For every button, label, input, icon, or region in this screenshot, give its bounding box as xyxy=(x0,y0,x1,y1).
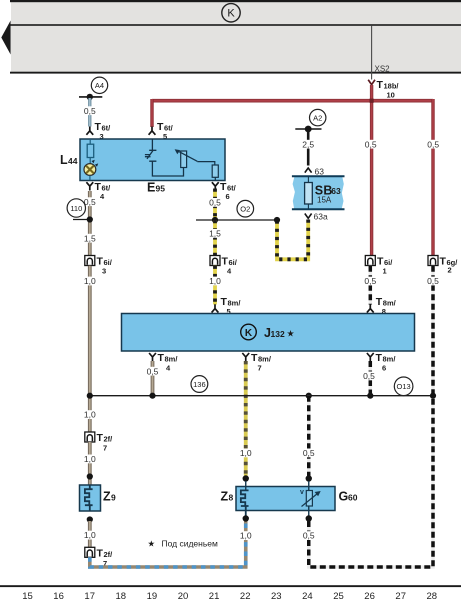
svg-text:24: 24 xyxy=(302,591,313,600)
svg-text:0,5: 0,5 xyxy=(427,276,439,286)
junction dot G60 bottom xyxy=(306,515,312,521)
svg-text:★: ★ xyxy=(287,329,295,339)
label 0,5 on red wire right xyxy=(426,140,441,149)
junction dot xyxy=(87,516,93,522)
wire: tan T6i/3 down through junction to Z9 xyxy=(88,266,92,433)
svg-text:G: G xyxy=(339,490,349,504)
svg-text:v: v xyxy=(300,489,304,496)
svg-text:44: 44 xyxy=(68,156,78,166)
node junction line 136/O13 xyxy=(90,395,433,397)
wire: yellow/black T8m/7 down to Z8 xyxy=(244,361,248,476)
svg-text:1,5: 1,5 xyxy=(209,229,221,239)
pin T8m/4 xyxy=(149,353,156,361)
series resistor in E95 xyxy=(212,165,218,177)
svg-text:15: 15 xyxy=(22,591,33,600)
svg-text:0,5: 0,5 xyxy=(303,531,315,541)
svg-text:16: 16 xyxy=(53,591,64,600)
connector T6g/2 xyxy=(428,256,438,266)
svg-text:25: 25 xyxy=(333,591,344,600)
svg-text:T: T xyxy=(440,256,447,268)
svg-text:20: 20 xyxy=(178,591,189,600)
svg-text:15A: 15A xyxy=(317,196,332,205)
svg-text:E: E xyxy=(147,181,155,195)
lamp L44 resistor xyxy=(89,139,91,144)
heater element Z9 xyxy=(80,485,101,511)
svg-text:1,0: 1,0 xyxy=(209,276,221,286)
svg-text:3: 3 xyxy=(102,267,106,276)
svg-text:K: K xyxy=(227,8,235,20)
wire: blue/grey bottom run Z9 to Z8 xyxy=(90,519,246,567)
pin T6t/3 xyxy=(86,127,93,135)
pin T6t/4 xyxy=(86,182,93,190)
svg-text:A2: A2 xyxy=(313,114,322,123)
svg-text:110: 110 xyxy=(70,204,82,213)
lamp L44 xyxy=(84,164,96,176)
junction dot xyxy=(149,393,155,399)
svg-text:O2: O2 xyxy=(240,205,250,214)
junction dot G60 top xyxy=(306,475,312,481)
fuse SB63 pin 63a xyxy=(305,214,312,219)
svg-text:★: ★ xyxy=(148,539,156,549)
svg-text:0,5: 0,5 xyxy=(147,366,159,376)
connector T2f/7 upper xyxy=(85,432,95,442)
wire: tan E95 pin4 down to T6i/3 xyxy=(88,191,92,255)
label 1,0 below Z8 xyxy=(238,531,253,540)
connector T6i/3 xyxy=(85,256,95,266)
svg-text:28: 28 xyxy=(427,591,438,600)
svg-text:O13: O13 xyxy=(397,382,411,391)
junction dot xyxy=(87,393,93,399)
wire: grey-blue from A4 to T6t/3 xyxy=(88,98,91,127)
junction dot xyxy=(306,393,312,399)
junction dot xyxy=(367,393,373,399)
junction dot Z8 bottom xyxy=(243,515,249,521)
svg-text:T: T xyxy=(97,547,104,559)
junction dot Z8 top xyxy=(243,475,249,481)
svg-text:A4: A4 xyxy=(95,81,104,90)
svg-text:63: 63 xyxy=(331,186,341,196)
bottom scale numbers xyxy=(22,591,437,600)
svg-text:63a: 63a xyxy=(314,212,328,222)
svg-text:1,0: 1,0 xyxy=(84,276,96,286)
junction dot xyxy=(87,216,93,222)
wire: black/white T8m/6 to junction line xyxy=(369,361,373,396)
connector T6i/4 xyxy=(210,256,220,266)
svg-text:K: K xyxy=(245,328,253,339)
svg-text:9: 9 xyxy=(111,493,116,503)
pin T8m/8 xyxy=(367,304,374,312)
junction dot xyxy=(274,217,280,223)
svg-text:0,5: 0,5 xyxy=(365,139,377,149)
svg-text:XS2: XS2 xyxy=(375,64,391,73)
svg-text:10: 10 xyxy=(387,91,395,100)
svg-text:63: 63 xyxy=(315,167,325,177)
svg-text:136: 136 xyxy=(193,380,206,389)
ground point A2 xyxy=(310,109,326,125)
connector T6i/1 xyxy=(365,256,375,266)
heater element Z8 / sensor G60 box xyxy=(236,487,335,511)
svg-text:0,5: 0,5 xyxy=(303,448,315,458)
svg-text:132: 132 xyxy=(271,329,285,339)
svg-text:T: T xyxy=(251,352,258,364)
svg-text:95: 95 xyxy=(156,184,166,194)
wire: black/white T6g/2 down, bottom run, up to G60 xyxy=(309,266,433,567)
svg-text:2f/: 2f/ xyxy=(104,550,114,559)
svg-text:Под сиденьем: Под сиденьем xyxy=(162,539,219,549)
wire: yellow/black from 63a down and to O2 line xyxy=(277,220,308,260)
bottom scale bar xyxy=(0,585,461,587)
fuse SB63 box xyxy=(293,176,344,209)
svg-text:1,0: 1,0 xyxy=(84,454,96,464)
svg-text:Z: Z xyxy=(103,490,111,504)
wire: tan to Z9 xyxy=(88,442,92,485)
svg-text:T: T xyxy=(377,79,384,91)
svg-text:6: 6 xyxy=(226,192,230,201)
wire: tan below Z9 xyxy=(88,521,92,548)
connector chevron T18b/10 xyxy=(368,80,375,85)
svg-text:0,5: 0,5 xyxy=(427,139,439,149)
svg-text:0,5: 0,5 xyxy=(364,276,376,286)
wire: tan left column lower to Z9 xyxy=(83,410,98,419)
terminal K circle in rail xyxy=(222,4,240,22)
node 110 circle xyxy=(73,219,90,221)
wire: yellow/black E95 pin6 down to O2 line xyxy=(213,189,217,221)
label 0,5 on red wire left xyxy=(364,140,379,149)
svg-text:8m/: 8m/ xyxy=(258,355,272,364)
svg-text:17: 17 xyxy=(84,591,95,600)
junction dot xyxy=(212,217,218,223)
wire: red drop from XS2 to rail and to T6i/1 xyxy=(370,85,373,255)
svg-text:8m/: 8m/ xyxy=(165,355,179,364)
svg-text:6: 6 xyxy=(382,364,386,373)
svg-text:T: T xyxy=(97,432,104,444)
svg-text:2,5: 2,5 xyxy=(302,139,314,149)
switch in E95 xyxy=(145,139,184,176)
wire: yellow/black O2 line down to T6i/4 xyxy=(213,220,217,255)
svg-text:8m/: 8m/ xyxy=(383,355,397,364)
junction dot xyxy=(87,473,93,479)
fuse SB63 pin 63 xyxy=(305,168,312,173)
connector T2f/7 lower xyxy=(85,547,95,557)
svg-text:19: 19 xyxy=(147,591,158,600)
pin T6t/5 xyxy=(149,127,156,135)
potentiometer in E95 xyxy=(181,151,187,168)
svg-text:T: T xyxy=(158,352,165,364)
svg-text:21: 21 xyxy=(209,591,220,600)
wire: black/white junction down to G60 xyxy=(307,396,311,479)
svg-text:2f/: 2f/ xyxy=(104,435,114,444)
svg-text:8: 8 xyxy=(229,493,234,503)
svg-text:23: 23 xyxy=(271,591,282,600)
svg-text:2: 2 xyxy=(448,266,452,275)
wire: black/white T6i/1 down to T8m/8 xyxy=(369,266,373,305)
wire: tan T8m/4 to junction line xyxy=(151,361,155,396)
node XS2 drop line xyxy=(371,26,373,80)
control unit J132 box xyxy=(122,314,415,352)
pin T8m/7 xyxy=(242,353,249,361)
label 0,5 below G60 xyxy=(301,531,316,540)
svg-text:T: T xyxy=(376,352,383,364)
wire: red right drop to T6g/2 xyxy=(431,99,434,255)
wire: yellow/black T6i/4 down to T8m/5 xyxy=(213,266,217,305)
svg-text:27: 27 xyxy=(395,591,406,600)
svg-text:Z: Z xyxy=(221,490,229,504)
direction arrow left xyxy=(1,21,10,55)
svg-text:1,0: 1,0 xyxy=(240,448,252,458)
svg-text:60: 60 xyxy=(348,493,358,503)
svg-text:1: 1 xyxy=(383,267,387,276)
wire: red supply rail horizontal xyxy=(152,99,433,103)
ground point A4 xyxy=(91,77,107,93)
svg-text:7: 7 xyxy=(258,364,262,373)
wire: red stub to E95 pin 5 xyxy=(150,99,153,127)
regulator E95 box xyxy=(80,139,225,181)
pin T8m/5 xyxy=(212,304,219,312)
node line O2 xyxy=(196,219,277,221)
svg-text:22: 22 xyxy=(240,591,251,600)
svg-text:0,5: 0,5 xyxy=(84,106,96,116)
pin T6t/6 xyxy=(212,182,219,190)
svg-text:0,5: 0,5 xyxy=(209,198,221,208)
svg-text:7: 7 xyxy=(103,444,107,453)
svg-text:18: 18 xyxy=(116,591,127,600)
svg-text:L: L xyxy=(60,153,68,167)
junction dot xyxy=(430,393,436,399)
bus bar: top grey rail band xyxy=(11,2,461,72)
svg-text:1,0: 1,0 xyxy=(84,410,96,420)
svg-text:0,5: 0,5 xyxy=(363,371,375,381)
svg-text:18b/: 18b/ xyxy=(384,82,400,91)
wire: black 2,5 to SB63 xyxy=(307,130,310,166)
svg-text:1,0: 1,0 xyxy=(84,530,96,540)
junction red at rail xyxy=(370,99,374,103)
svg-text:1,5: 1,5 xyxy=(84,233,96,243)
svg-text:1,0: 1,0 xyxy=(240,531,252,541)
pin T8m/6 xyxy=(367,353,374,361)
svg-text:26: 26 xyxy=(364,591,375,600)
